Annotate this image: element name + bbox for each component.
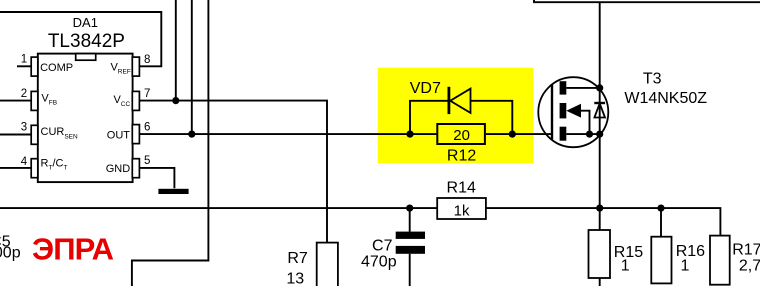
node Vcc junction <box>172 97 179 104</box>
wire OUT rail from top <box>191 0 193 134</box>
node R12 right <box>509 131 516 138</box>
T3 channel bars <box>560 81 567 94</box>
svg-text:1: 1 <box>680 258 689 275</box>
node source outer <box>596 131 603 138</box>
transistor T3 circle <box>538 77 608 147</box>
svg-text:ЭПРА: ЭПРА <box>32 232 114 267</box>
svg-text:8: 8 <box>144 54 150 66</box>
body diode triangle <box>594 103 605 117</box>
pin 2 VFB <box>0 100 31 102</box>
highlight box (yellow) <box>378 68 534 163</box>
resistor R15 <box>599 208 601 286</box>
diode VD7 branch wire <box>410 101 512 134</box>
svg-text:2,7: 2,7 <box>739 258 760 275</box>
wire OUT pin6 to gate <box>139 133 552 135</box>
T3 arrow <box>566 104 581 118</box>
pin 6 OUT <box>132 125 139 144</box>
svg-text:1: 1 <box>21 53 27 65</box>
node R16 junction <box>657 205 664 212</box>
svg-text:W14NK50Z: W14NK50Z <box>624 90 707 107</box>
IC notch <box>76 54 96 61</box>
node R12 left <box>406 131 413 138</box>
wire aux vertical to bottom left <box>132 0 209 286</box>
wire bottom rail <box>0 208 720 236</box>
svg-text:T3: T3 <box>643 71 662 88</box>
pin 8 VREF <box>132 57 139 76</box>
resistor R12 <box>437 124 485 144</box>
svg-text:3: 3 <box>21 122 27 134</box>
resistor R17 <box>710 236 730 285</box>
resistor R16 <box>660 208 662 237</box>
resistor R7 <box>317 243 338 286</box>
wire drain vertical <box>599 2 601 208</box>
pin 3 CURSEN <box>0 134 31 136</box>
node OUT junction <box>188 131 195 138</box>
wire Vcc pin7 to R7 <box>139 101 327 243</box>
svg-text:6: 6 <box>144 121 150 133</box>
svg-text:5: 5 <box>144 155 150 167</box>
svg-text:470p: 470p <box>361 254 397 271</box>
svg-text:4: 4 <box>21 156 28 168</box>
svg-text:VD7: VD7 <box>410 80 441 97</box>
wire VREF top link <box>0 12 161 66</box>
node C7 junction <box>406 205 413 212</box>
wire top right rail <box>534 0 760 2</box>
svg-text:13: 13 <box>286 270 304 286</box>
ground <box>158 189 188 194</box>
svg-text:R17: R17 <box>732 242 760 259</box>
node source inner <box>586 131 593 138</box>
body diode bar <box>594 102 605 104</box>
diode VD7 <box>447 87 450 114</box>
resistor R14 <box>437 198 486 219</box>
wire Vcc rail from top <box>175 0 177 101</box>
T3 gate bar <box>551 85 553 140</box>
svg-text:20: 20 <box>453 127 470 144</box>
svg-text:OUT: OUT <box>107 130 131 142</box>
pin 4 RT/CT <box>0 167 31 169</box>
node R15 junction <box>596 205 603 212</box>
svg-text:COMP: COMP <box>40 62 73 74</box>
svg-text:1: 1 <box>621 258 630 275</box>
pin 5 GND <box>132 159 139 178</box>
T3 source link <box>566 133 599 135</box>
T3 arrow link <box>581 111 590 134</box>
op IC DA1 body <box>38 54 133 183</box>
capacitor C7 <box>409 208 411 286</box>
svg-text:2: 2 <box>21 88 27 100</box>
svg-text:R7: R7 <box>287 250 308 267</box>
svg-text:1k: 1k <box>454 203 470 220</box>
node drain <box>596 84 603 91</box>
svg-text:7: 7 <box>144 88 150 100</box>
svg-text:R14: R14 <box>447 179 476 196</box>
svg-text:C7: C7 <box>372 238 393 255</box>
wire pin5 to ground <box>139 168 174 188</box>
pin 1 COMP <box>17 65 31 67</box>
svg-text:GND: GND <box>106 163 131 175</box>
svg-text:DA1: DA1 <box>73 15 98 30</box>
svg-text:R12: R12 <box>447 148 476 165</box>
pin 7 VCC <box>132 91 139 110</box>
svg-text:00p: 00p <box>0 245 21 262</box>
T3 drain link <box>566 87 599 89</box>
svg-text:TL3842P: TL3842P <box>48 31 125 52</box>
